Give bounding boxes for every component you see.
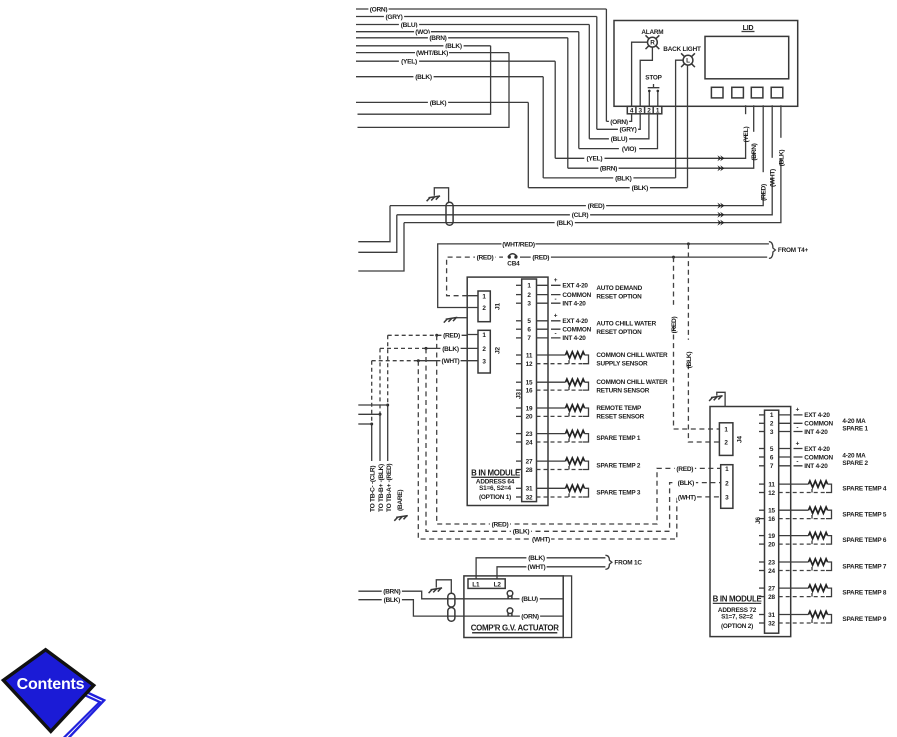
ground hook top bbox=[434, 188, 448, 203]
cable clamp oval bbox=[446, 202, 453, 225]
svg-text:R: R bbox=[650, 40, 655, 47]
svg-text:AUTO DEMAND: AUTO DEMAND bbox=[596, 285, 642, 292]
wire BLU horizontal bbox=[356, 24, 589, 26]
LID button 4 bbox=[771, 87, 783, 98]
wire BLK9 horizontal bbox=[356, 76, 543, 78]
svg-text:23: 23 bbox=[526, 431, 533, 438]
svg-text:SUPPLY SENSOR: SUPPLY SENSOR bbox=[596, 360, 648, 367]
svg-text:J6: J6 bbox=[755, 517, 762, 524]
lamp ALARM R bbox=[648, 37, 658, 47]
svg-text:(RED): (RED) bbox=[588, 203, 605, 210]
svg-text:TO TB-A+ -(RED): TO TB-A+ -(RED) bbox=[386, 464, 393, 512]
svg-text:COMMON: COMMON bbox=[562, 292, 591, 299]
svg-text:RESET SENSOR: RESET SENSOR bbox=[596, 413, 644, 420]
svg-text:(WHT): (WHT) bbox=[528, 564, 546, 571]
wire WHTBLK horizontal bbox=[356, 52, 509, 54]
LID display bbox=[705, 36, 789, 78]
wire WHT from L2 bbox=[497, 567, 605, 579]
svg-text:(WHT): (WHT) bbox=[442, 358, 460, 365]
clamp oval A bbox=[448, 593, 455, 607]
svg-text:(OPTION 2): (OPTION 2) bbox=[721, 623, 753, 630]
svg-text:16: 16 bbox=[768, 516, 775, 523]
clamp oval B bbox=[448, 608, 455, 622]
svg-text:STOP: STOP bbox=[645, 75, 662, 82]
svg-text:(BLK): (BLK) bbox=[513, 529, 530, 536]
svg-text:16: 16 bbox=[526, 387, 533, 394]
wire RED dashed down right side bbox=[674, 257, 720, 429]
svg-text:J1: J1 bbox=[495, 303, 502, 310]
svg-text:INT 4-20: INT 4-20 bbox=[804, 463, 828, 470]
wire BLK from LID bbox=[404, 105, 781, 222]
svg-text:(RED): (RED) bbox=[676, 466, 693, 473]
svg-text:SPARE TEMP 2: SPARE TEMP 2 bbox=[596, 462, 641, 469]
svg-text:+: + bbox=[554, 313, 558, 320]
svg-text:(WHT/BLK): (WHT/BLK) bbox=[416, 50, 448, 57]
wire WHT/BLK elbow down-left bbox=[358, 53, 510, 128]
svg-text:(OPTION 1): (OPTION 1) bbox=[479, 494, 511, 501]
svg-text:J3: J3 bbox=[516, 392, 523, 399]
svg-text:SPARE TEMP 9: SPARE TEMP 9 bbox=[842, 616, 887, 623]
breaker CB4 bbox=[508, 254, 517, 257]
wire BLU terminal2 drop bbox=[589, 114, 649, 139]
wire BLK9 vertical bbox=[542, 77, 544, 178]
contents button shadow bbox=[61, 685, 105, 737]
terminal ticks right module2 bbox=[779, 414, 803, 416]
svg-text:15: 15 bbox=[526, 380, 533, 387]
wire GRY vertical bbox=[596, 17, 598, 130]
wire WO/VIO vertical bbox=[578, 32, 580, 149]
svg-text:(RED): (RED) bbox=[532, 255, 549, 262]
svg-text:INT 4-20: INT 4-20 bbox=[562, 301, 586, 308]
svg-text:(BLK): (BLK) bbox=[556, 220, 573, 227]
svg-text:L2: L2 bbox=[494, 581, 502, 588]
svg-text:(BRN): (BRN) bbox=[429, 35, 446, 42]
svg-text:SPARE TEMP 6: SPARE TEMP 6 bbox=[842, 537, 887, 544]
wire BLK6 horizontal bbox=[356, 45, 491, 47]
wire BRN to LID bbox=[568, 105, 754, 168]
svg-text:(BLK): (BLK) bbox=[415, 74, 432, 81]
svg-text:-: - bbox=[796, 424, 798, 431]
sensor row module2 #8 bbox=[779, 587, 809, 589]
sensor row module1 #3 bbox=[537, 407, 566, 409]
svg-text:S1=6, S2=4: S1=6, S2=4 bbox=[479, 485, 511, 492]
rotated label RED right bbox=[669, 305, 677, 325]
svg-text:(RED): (RED) bbox=[477, 255, 494, 262]
svg-text:Contents: Contents bbox=[17, 676, 85, 693]
wire CLR left tail bbox=[358, 215, 397, 253]
svg-text:CB4: CB4 bbox=[507, 261, 520, 268]
LID button 2 bbox=[732, 87, 744, 98]
alarm lamp wire to terminal 4 bbox=[632, 42, 648, 106]
svg-text:B IN MODULE: B IN MODULE bbox=[471, 468, 520, 477]
back light lamp bottom wire bbox=[687, 65, 689, 188]
svg-text:(ORN): (ORN) bbox=[610, 119, 628, 126]
svg-text:4-20 MA: 4-20 MA bbox=[842, 452, 866, 459]
dashed BLK down-right run bbox=[426, 348, 721, 531]
svg-text:TO TB-C- -(CLR): TO TB-C- -(CLR) bbox=[370, 466, 377, 512]
connector J4 module2 bbox=[719, 423, 733, 456]
svg-text:+: + bbox=[796, 440, 800, 447]
dashed RED down-right run bbox=[437, 335, 721, 524]
svg-text:-: - bbox=[796, 459, 798, 466]
wire BLK into J2-2 bbox=[380, 347, 426, 349]
wire BLK10 horizontal bbox=[356, 101, 528, 103]
terminal ticks right module1 bbox=[537, 284, 561, 286]
wire BLK10 to back light bbox=[528, 187, 687, 189]
rotated label BRN bbox=[750, 132, 758, 152]
sensor row module1 #1 bbox=[537, 354, 566, 356]
wire RED from LID bbox=[390, 105, 763, 205]
svg-text:12: 12 bbox=[768, 490, 775, 497]
node on WHT/RED line bbox=[687, 242, 690, 245]
wire RED into J2-1 bbox=[388, 334, 437, 336]
connector J2 module1 bbox=[478, 330, 490, 373]
STOP switch bbox=[648, 84, 660, 106]
svg-text:(WHT/RED): (WHT/RED) bbox=[502, 241, 535, 248]
svg-text:+: + bbox=[554, 277, 558, 284]
svg-text:SPARE TEMP 8: SPARE TEMP 8 bbox=[842, 590, 887, 597]
svg-text:27: 27 bbox=[768, 585, 775, 592]
label BLU bbox=[520, 595, 540, 603]
svg-text:-: - bbox=[555, 331, 557, 338]
sensor row module2 #6 bbox=[779, 535, 809, 537]
svg-text:(RED): (RED) bbox=[671, 316, 678, 333]
svg-text:31: 31 bbox=[526, 486, 533, 493]
brace FROM 1C bbox=[605, 555, 612, 569]
LID button 3 bbox=[751, 87, 763, 98]
stub TB-C bbox=[358, 423, 371, 425]
svg-text:(VIO): (VIO) bbox=[622, 146, 636, 153]
connector J5 module2 bbox=[721, 465, 733, 509]
svg-text:(WHT): (WHT) bbox=[532, 536, 550, 543]
sensor row module2 #7 bbox=[779, 561, 809, 563]
B IN MODULE option1 box bbox=[467, 277, 548, 505]
svg-text:SPARE 2: SPARE 2 bbox=[842, 460, 868, 467]
wire BLK dashed down right side bbox=[688, 244, 719, 442]
wire BLU vertical bbox=[588, 25, 590, 139]
svg-text:(BLU): (BLU) bbox=[521, 596, 538, 603]
label ORN bbox=[520, 612, 540, 620]
wire YEL vertical bbox=[554, 61, 556, 158]
svg-text:(GRY): (GRY) bbox=[620, 127, 637, 134]
ground hook actuator bbox=[436, 580, 451, 594]
svg-text:SPARE TEMP 1: SPARE TEMP 1 bbox=[596, 435, 641, 442]
branch BLK to TB-B bbox=[379, 348, 381, 414]
connector J1 module1 bbox=[478, 291, 490, 322]
svg-text:SPARE TEMP 4: SPARE TEMP 4 bbox=[842, 486, 887, 493]
wire BLK6 elbow down-left bbox=[358, 46, 491, 114]
svg-text:20: 20 bbox=[526, 414, 533, 421]
sensor row module2 #4 bbox=[779, 483, 809, 485]
wire BLK9 to back light bbox=[543, 177, 675, 179]
svg-text:SPARE TEMP 7: SPARE TEMP 7 bbox=[842, 564, 887, 571]
actuator box bbox=[464, 576, 563, 638]
svg-text:32: 32 bbox=[768, 620, 775, 627]
wire WHT into J2-3 bbox=[372, 360, 419, 362]
terminal block 4 3 2 1 bbox=[627, 106, 662, 114]
wire GRY horizontal bbox=[356, 16, 597, 18]
rotated label BLK bbox=[777, 138, 785, 158]
wire YEL to LID bbox=[555, 105, 745, 158]
svg-text:(GRY): (GRY) bbox=[386, 14, 403, 21]
svg-text:+: + bbox=[796, 407, 800, 414]
svg-text:SPARE 1: SPARE 1 bbox=[842, 425, 868, 432]
svg-text:EXT 4-20: EXT 4-20 bbox=[804, 412, 830, 419]
svg-text:(BRN): (BRN) bbox=[383, 589, 400, 596]
svg-text:FROM 1C: FROM 1C bbox=[614, 560, 642, 567]
svg-text:4-20 MA: 4-20 MA bbox=[842, 418, 866, 425]
svg-text:EXT 4-20: EXT 4-20 bbox=[804, 446, 830, 453]
svg-text:(BLK): (BLK) bbox=[678, 480, 695, 487]
wire BLK lead bbox=[358, 600, 563, 616]
wire VIO terminal1 drop bbox=[579, 114, 658, 149]
wire RED CB4 dashed bbox=[447, 257, 503, 296]
ground module1 left bbox=[457, 317, 467, 319]
svg-text:(RED): (RED) bbox=[492, 521, 509, 528]
svg-text:28: 28 bbox=[768, 594, 775, 601]
svg-text:(RED): (RED) bbox=[443, 333, 460, 340]
svg-text:B IN MODULE: B IN MODULE bbox=[713, 595, 762, 604]
svg-text:11: 11 bbox=[526, 352, 533, 359]
wire ORN vertical bbox=[605, 9, 607, 121]
sensor row module1 #2 bbox=[537, 381, 566, 383]
sensor row module1 #6 bbox=[537, 487, 566, 489]
wire BLK10 vertical bbox=[527, 102, 529, 187]
svg-text:(YEL): (YEL) bbox=[587, 156, 603, 163]
sensor row module2 #9 bbox=[779, 614, 809, 616]
stub TB-A bbox=[358, 404, 387, 406]
svg-text:11: 11 bbox=[768, 481, 775, 488]
svg-text:COMP'R G.V. ACTUATOR: COMP'R G.V. ACTUATOR bbox=[471, 624, 560, 633]
svg-text:AUTO CHILL WATER: AUTO CHILL WATER bbox=[596, 320, 656, 327]
svg-text:COMMON: COMMON bbox=[804, 421, 833, 428]
svg-text:(RED): (RED) bbox=[761, 184, 768, 201]
rotated label WHT bbox=[768, 158, 776, 178]
svg-text:(BLK): (BLK) bbox=[686, 352, 693, 369]
rotated label RED bbox=[759, 172, 767, 192]
svg-text:(BLK): (BLK) bbox=[528, 555, 545, 562]
svg-text:31: 31 bbox=[768, 612, 775, 619]
sensor row module1 #4 bbox=[537, 433, 566, 435]
wire ORN horizontal bbox=[356, 8, 606, 10]
svg-text:COMMON CHILL WATER: COMMON CHILL WATER bbox=[596, 352, 668, 359]
svg-text:(BLK): (BLK) bbox=[615, 175, 632, 182]
ground symbol actuator bbox=[429, 588, 443, 593]
svg-text:(BLK): (BLK) bbox=[430, 100, 447, 107]
svg-text:(ORN): (ORN) bbox=[521, 614, 539, 621]
contents button diamond bbox=[3, 650, 93, 732]
svg-text:FROM T4+: FROM T4+ bbox=[778, 247, 809, 254]
svg-text:SPARE TEMP 5: SPARE TEMP 5 bbox=[842, 512, 887, 519]
svg-text:COMMON CHILL WATER: COMMON CHILL WATER bbox=[596, 379, 668, 386]
svg-text:BACK LIGHT: BACK LIGHT bbox=[663, 46, 701, 53]
brace FROM T4+ bbox=[769, 242, 776, 259]
lamp BLU bbox=[507, 591, 513, 597]
wire BRN horizontal bbox=[356, 37, 568, 39]
svg-text:12: 12 bbox=[526, 361, 533, 368]
svg-text:RESET OPTION: RESET OPTION bbox=[596, 294, 642, 301]
wire YEL horizontal bbox=[356, 60, 555, 62]
terminal strip U2 bbox=[765, 410, 779, 633]
branch RED to TB-A bbox=[387, 335, 389, 405]
svg-text:(BLK): (BLK) bbox=[632, 185, 649, 192]
svg-text:L: L bbox=[686, 58, 690, 65]
ground module2 hook bbox=[717, 392, 725, 406]
svg-text:15: 15 bbox=[768, 508, 775, 515]
svg-text:(BRN): (BRN) bbox=[751, 143, 758, 160]
svg-text:(BARE): (BARE) bbox=[397, 490, 404, 511]
sensor row module1 #5 bbox=[537, 460, 566, 462]
svg-text:23: 23 bbox=[768, 559, 775, 566]
svg-text:ALARM: ALARM bbox=[641, 29, 663, 36]
svg-text:J4: J4 bbox=[737, 436, 744, 443]
svg-text:20: 20 bbox=[768, 541, 775, 548]
svg-text:19: 19 bbox=[526, 405, 533, 412]
svg-text:(WO): (WO) bbox=[415, 29, 430, 36]
svg-text:EXT 4-20: EXT 4-20 bbox=[562, 283, 588, 290]
svg-text:(CLR): (CLR) bbox=[572, 212, 589, 219]
svg-text:RESET OPTION: RESET OPTION bbox=[596, 329, 642, 336]
wire BRN vertical bbox=[567, 38, 569, 168]
svg-text:L1: L1 bbox=[472, 581, 480, 588]
svg-text:(BRN): (BRN) bbox=[600, 166, 617, 173]
svg-text:24: 24 bbox=[768, 568, 775, 575]
svg-text:COMMON: COMMON bbox=[562, 327, 591, 334]
svg-text:24: 24 bbox=[526, 439, 533, 446]
wire BRN lead bbox=[358, 591, 563, 599]
LID panel box bbox=[614, 21, 798, 107]
wire BLK from L1 bbox=[476, 558, 605, 579]
svg-text:RETURN SENSOR: RETURN SENSOR bbox=[596, 387, 649, 394]
svg-text:COMMON: COMMON bbox=[804, 454, 833, 461]
wire WO horizontal bbox=[356, 31, 579, 33]
branch WHT to TB-C bbox=[371, 361, 373, 424]
svg-text:SPARE TEMP 3: SPARE TEMP 3 bbox=[596, 490, 641, 497]
svg-text:32: 32 bbox=[526, 494, 533, 501]
node on RED line bbox=[672, 256, 675, 259]
rotated label BLK right bbox=[684, 340, 692, 360]
terminal strip U1 bbox=[522, 279, 537, 502]
rotated label YEL bbox=[741, 114, 749, 134]
alarm lamp wire to terminal 3 bbox=[640, 47, 652, 106]
svg-text:(YEL): (YEL) bbox=[743, 127, 750, 143]
svg-text:S1=7, S2=2: S1=7, S2=2 bbox=[721, 614, 753, 621]
wire GRY terminal3 drop bbox=[597, 114, 640, 130]
ground symbol top bbox=[427, 196, 441, 201]
stub TB-B bbox=[358, 413, 380, 415]
B IN MODULE option2 box bbox=[710, 407, 791, 637]
svg-text:INT 4-20: INT 4-20 bbox=[804, 429, 828, 436]
svg-text:-: - bbox=[555, 296, 557, 303]
svg-text:(BLU): (BLU) bbox=[611, 136, 628, 143]
wire CLR from LID bbox=[397, 105, 772, 215]
svg-text:EXT 4-20: EXT 4-20 bbox=[562, 318, 588, 325]
svg-text:28: 28 bbox=[526, 467, 533, 474]
svg-text:(BLK): (BLK) bbox=[778, 150, 785, 167]
wire BLK left tail bbox=[358, 223, 404, 271]
dashed WHT down-right run bbox=[418, 361, 720, 539]
svg-text:27: 27 bbox=[526, 458, 533, 465]
ground BARE bbox=[394, 516, 408, 521]
svg-text:TO TB-B+ -(BLK): TO TB-B+ -(BLK) bbox=[378, 464, 385, 512]
svg-text:19: 19 bbox=[768, 533, 775, 540]
back light lamp left wire bbox=[676, 60, 684, 178]
svg-text:J2: J2 bbox=[495, 347, 502, 354]
lamp BACK LIGHT L bbox=[683, 55, 693, 65]
sensor row module2 #5 bbox=[779, 509, 809, 511]
wire ORN terminal4 drop bbox=[606, 114, 631, 122]
svg-text:(WHT): (WHT) bbox=[770, 169, 777, 187]
svg-text:(YEL): (YEL) bbox=[401, 59, 417, 66]
lamp ORN bbox=[507, 608, 513, 614]
svg-text:(BLK): (BLK) bbox=[442, 346, 459, 353]
L1 L2 box bbox=[468, 579, 505, 589]
svg-text:INT 4-20: INT 4-20 bbox=[562, 335, 586, 342]
LID button 1 bbox=[711, 87, 723, 98]
svg-text:REMOTE TEMP: REMOTE TEMP bbox=[596, 405, 642, 412]
svg-text:(BLK): (BLK) bbox=[384, 597, 401, 604]
actuator right double edge bbox=[563, 576, 571, 638]
wire RED left tail bbox=[358, 206, 390, 242]
svg-text:(WHT): (WHT) bbox=[678, 494, 696, 501]
ground symbol module2 bbox=[709, 396, 723, 401]
wire WHT/RED bbox=[438, 244, 769, 308]
